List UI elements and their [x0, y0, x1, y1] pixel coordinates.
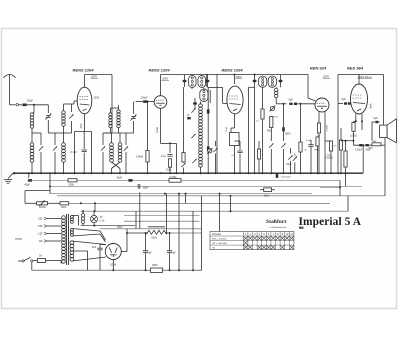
resistor R8	[299, 142, 302, 152]
wire	[191, 88, 193, 90]
capacitor C2 0.1uF cathode	[82, 149, 87, 151]
coil L9 oscillator	[199, 104, 203, 108]
wire lamp return	[81, 225, 135, 227]
wire	[82, 211, 84, 213]
wire	[205, 75, 207, 88]
table switch positions	[210, 232, 294, 250]
loudspeaker LS1	[380, 125, 388, 138]
wire antenna lead-in	[9, 78, 11, 105]
wire	[215, 141, 217, 146]
coil L2 antenna secondary	[30, 143, 34, 147]
transformer TR1 secondary 1	[70, 215, 73, 218]
wire cathode link	[75, 130, 92, 132]
capacitor C15 trimmer	[280, 75, 282, 88]
resistor R4 bias	[230, 133, 240, 146]
wire drop B+	[201, 196, 203, 270]
wire long HT	[337, 75, 339, 174]
wire V5 grid	[338, 103, 343, 105]
capacitor C22 5uF grid	[344, 102, 347, 104]
coil L8 lower	[118, 143, 122, 147]
svg-text:0.1µF: 0.1µF	[71, 151, 78, 154]
fuse F1	[38, 258, 46, 262]
IF transformer T1 coil b	[198, 76, 206, 88]
svg-text:100pF: 100pF	[141, 97, 149, 100]
bus line 4	[50, 193, 312, 195]
variable capacitor C3 tuning	[131, 116, 135, 118]
capacitor C8 1uF padding	[187, 117, 190, 119]
coil L1 antenna primary	[30, 113, 33, 116]
tap 110	[47, 240, 61, 242]
rectifier V6 RGN1064	[105, 244, 121, 260]
svg-text:20000: 20000	[39, 206, 46, 209]
svg-text:0.1MΩ: 0.1MΩ	[327, 124, 329, 131]
wire T1 top	[185, 74, 209, 76]
svg-text:0.1/0.5µF: 0.1/0.5µF	[281, 177, 291, 179]
wire 260V line	[100, 228, 202, 230]
svg-text:RENS 1264: RENS 1264	[72, 68, 94, 73]
coil L6 RF secondary	[117, 110, 120, 113]
bus line 2	[28, 179, 341, 181]
tap 125	[47, 233, 61, 235]
capacitor C31 trimmer	[193, 102, 197, 105]
svg-text:200V: 200V	[162, 77, 168, 81]
svg-text:5000: 5000	[61, 206, 67, 209]
svg-text:0.05MΩ: 0.05MΩ	[325, 158, 333, 160]
wire speaker feed	[383, 75, 385, 119]
switch S10	[269, 143, 273, 147]
svg-text:200V: 200V	[91, 75, 97, 79]
wire drop	[185, 194, 187, 204]
resistor R2 1M	[168, 159, 171, 167]
capacitor C12	[237, 150, 242, 152]
svg-text:150: 150	[38, 224, 43, 228]
svg-text:11mA: 11mA	[156, 127, 159, 133]
trimmer C16	[270, 106, 274, 110]
wire	[169, 167, 171, 173]
wire	[290, 148, 292, 154]
wire crossover	[112, 162, 121, 169]
wire HT winding	[72, 241, 106, 245]
capacitor C17 5000	[282, 127, 285, 131]
wire bus AVC	[28, 173, 30, 178]
svg-text:z. Wellenbereiche: z. Wellenbereiche	[269, 226, 287, 229]
wire	[234, 146, 236, 174]
wire	[102, 133, 104, 145]
wire	[262, 87, 264, 109]
svg-text:125V: 125V	[94, 97, 100, 100]
capacitor C28 4uF	[97, 247, 102, 249]
wire	[167, 232, 202, 234]
wire V2 cathode	[160, 108, 162, 143]
svg-text:RTW: RTW	[16, 237, 23, 241]
wire	[147, 162, 149, 173]
svg-text:200V: 200V	[236, 75, 242, 79]
svg-text:5000: 5000	[69, 184, 75, 187]
wire	[200, 102, 202, 105]
tube V1 RENS1264	[77, 87, 92, 114]
wire	[248, 87, 250, 173]
svg-text:0.1A: 0.1A	[100, 220, 105, 223]
svg-text:4500: 4500	[152, 264, 158, 267]
svg-text:40µF: 40µF	[117, 176, 123, 179]
coil L11 lamp winding	[81, 214, 84, 217]
wire riser	[339, 180, 341, 196]
wire	[239, 141, 241, 150]
dial lamp LP1	[90, 215, 97, 222]
svg-text:0.25µF: 0.25µF	[355, 150, 363, 152]
svg-text:LW = 700-2000: LW = 700-2000	[212, 243, 228, 245]
resistor R19 5000	[60, 202, 69, 205]
svg-text:20pF: 20pF	[27, 99, 33, 103]
bus ground main	[13, 172, 363, 174]
bus line 5	[57, 195, 385, 197]
wire V1 anode top cap	[84, 75, 86, 88]
IF transformer T1 coil a	[189, 76, 197, 88]
wire	[161, 142, 177, 144]
capacitor C30 8uF	[167, 250, 172, 252]
tap 220	[47, 218, 61, 220]
switch S3 waveband	[101, 146, 105, 150]
capacitor C27 under bus	[276, 174, 279, 178]
switch S9	[213, 148, 217, 152]
wire	[283, 104, 285, 127]
wire	[209, 90, 211, 103]
wire	[300, 104, 302, 142]
wire	[47, 105, 49, 113]
wire drop mid	[139, 192, 141, 228]
capacitor C10 padding	[207, 146, 210, 150]
wire	[63, 133, 65, 143]
svg-text:260V: 260V	[117, 226, 123, 229]
svg-text:Staßfurt: Staßfurt	[266, 219, 286, 225]
svg-text:110: 110	[38, 239, 43, 243]
switch S8 osc tap	[192, 159, 196, 163]
resistor R16 5000	[68, 179, 77, 182]
switch S12	[288, 155, 292, 159]
wire heater winding	[72, 229, 100, 232]
coil L4 grid coil	[62, 111, 65, 114]
svg-text:40µF: 40µF	[25, 184, 31, 187]
choke CH1 6162	[147, 230, 167, 234]
wire column	[216, 75, 218, 174]
ground symbol	[8, 173, 13, 178]
wire	[47, 120, 49, 133]
capacitor C19 0.1uF	[308, 144, 313, 146]
wire	[183, 87, 185, 153]
wire	[110, 108, 112, 113]
wire	[24, 191, 26, 204]
capacitor C21 500pF	[366, 144, 369, 146]
wire	[270, 128, 272, 141]
switch S15 waveband	[69, 114, 73, 118]
resistor R11	[339, 140, 342, 150]
variable capacitor C1 tuning	[46, 115, 50, 117]
wire grid of V2	[136, 101, 144, 103]
svg-text:50µF: 50µF	[366, 150, 372, 152]
wire	[63, 104, 65, 111]
svg-text:5µF: 5µF	[374, 117, 379, 120]
transformer TR1 secondary 3	[70, 241, 74, 245]
wire riser L5-heater	[230, 196, 232, 211]
svg-text:Imperial 5 A: Imperial 5 A	[299, 216, 362, 228]
svg-text:(MΩ): (MΩ)	[368, 148, 373, 150]
wire	[275, 87, 277, 88]
capacitor C4 100pF grid	[143, 100, 147, 103]
wire	[118, 105, 120, 110]
wire	[147, 102, 149, 150]
wire V3 cathode	[234, 114, 236, 128]
svg-text:5µF: 5µF	[342, 98, 347, 101]
capacitor C7 trimmer	[206, 75, 208, 88]
wire centre tap	[87, 251, 89, 270]
switch S6 osc tap	[191, 108, 195, 112]
resistor R15 7M	[372, 143, 381, 146]
switch S13 mains	[22, 260, 24, 262]
svg-text:MΩ: MΩ	[267, 130, 271, 133]
wire drop table	[219, 194, 221, 232]
wire screen column	[91, 131, 93, 173]
wire	[310, 140, 312, 145]
wire grid link	[64, 103, 72, 105]
switch S11	[281, 143, 285, 147]
svg-text:RES 964: RES 964	[347, 66, 364, 71]
wire drop	[166, 194, 168, 233]
svg-text:10µF: 10µF	[286, 163, 292, 166]
tube V4 REN904	[315, 98, 329, 112]
capacitor antenna series 20pF	[22, 104, 26, 107]
svg-text:5µF: 5µF	[289, 99, 294, 102]
trimmer C11	[208, 149, 212, 153]
wire	[31, 133, 33, 143]
coil L5 RF primary	[109, 113, 112, 116]
resistor R5	[261, 109, 264, 119]
wire osc column	[207, 87, 209, 173]
switch S5	[181, 163, 185, 167]
tap 150	[47, 225, 61, 227]
coil L7 lower	[110, 143, 114, 147]
svg-text:RENS 1204: RENS 1204	[148, 68, 170, 73]
wire	[94, 203, 96, 211]
IF transformer T2 coil a	[259, 76, 267, 87]
resistor R1 0.5M grid leak	[146, 151, 149, 163]
resistor R10 5000	[329, 141, 332, 151]
wire inset corner	[135, 211, 137, 229]
svg-text:4µF: 4µF	[92, 246, 97, 249]
resistor R3 anode feed	[182, 153, 185, 162]
capacitor C5 0.1uF	[167, 154, 172, 156]
resistor R21 diode load	[257, 149, 260, 159]
wire	[111, 133, 113, 143]
wire V1 cathode	[84, 114, 86, 132]
capacitor C26 60uF	[137, 184, 139, 189]
tube V5 RES964	[351, 84, 368, 114]
svg-text:5mA: 5mA	[370, 103, 373, 108]
wire 4V winding link	[72, 215, 79, 217]
bus line 6	[320, 186, 340, 188]
wire rect output	[112, 260, 114, 271]
wire	[40, 133, 42, 145]
resistor R14 bias	[352, 123, 355, 132]
resistor R6 1M	[270, 117, 273, 128]
bus line 8 heater	[81, 210, 348, 212]
svg-text:220: 220	[38, 217, 43, 221]
resistor R18 1M	[264, 188, 272, 192]
connector antenna jack	[16, 104, 18, 106]
svg-text:5000: 5000	[285, 133, 291, 136]
wire drop	[192, 211, 194, 270]
svg-text:0.5MΩ: 0.5MΩ	[170, 177, 177, 179]
switch S7 osc tap	[191, 134, 195, 138]
wire V4 plate down	[324, 112, 326, 174]
svg-text:REN 924: REN 924	[310, 66, 327, 71]
wire V4 cathode	[318, 112, 320, 124]
wire	[49, 173, 51, 193]
capacitor C18 5uF coupling	[289, 103, 292, 105]
wire tone line	[354, 144, 373, 146]
wire	[60, 261, 62, 264]
capacitor C13 trimmer	[254, 75, 256, 174]
wire grid of V1	[73, 101, 75, 104]
wire	[270, 149, 272, 173]
resistor R7 bias	[317, 123, 320, 133]
wire	[31, 128, 33, 133]
wire antenna node	[27, 104, 49, 106]
svg-text:200V 20mA: 200V 20mA	[358, 75, 372, 79]
wire	[102, 152, 104, 173]
IF transformer T1 coil c	[200, 89, 208, 102]
svg-text:125: 125	[38, 232, 43, 236]
wire	[383, 119, 385, 125]
wire V4 anode	[307, 75, 309, 99]
svg-text:3mA: 3mA	[80, 123, 83, 128]
wire	[340, 128, 342, 140]
mark	[299, 227, 304, 229]
wire	[71, 121, 73, 133]
wire supply bottom	[32, 269, 202, 271]
svg-text:200V: 200V	[323, 75, 329, 79]
wire T2 top	[235, 74, 281, 76]
coil L10 pigtail	[274, 88, 277, 91]
wire	[325, 140, 331, 142]
wire bus end riser	[362, 145, 364, 173]
resistor R13 0.05M	[344, 151, 347, 167]
capacitor C9 padding	[207, 109, 210, 113]
wire heater b	[124, 220, 200, 222]
wire	[318, 133, 320, 173]
IF transformer T2 coil b	[268, 76, 276, 87]
wire	[317, 146, 319, 173]
bus line 3	[50, 185, 362, 187]
coil L3 coupling	[62, 143, 66, 147]
wire grid feed V3	[207, 87, 222, 89]
wire	[345, 141, 347, 151]
resistor R20 4500	[151, 268, 163, 272]
svg-text:8µF: 8µF	[148, 252, 153, 255]
wire	[178, 194, 180, 271]
capacitor C6 trimmer	[184, 75, 186, 88]
wire right riser speaker	[384, 145, 386, 196]
svg-text:7MΩ: 7MΩ	[372, 141, 377, 143]
resistor R17 0.5M	[169, 179, 181, 183]
svg-text:1MΩ: 1MΩ	[264, 195, 269, 197]
svg-text:60µF: 60µF	[143, 186, 149, 189]
capacitor C25 40uF	[128, 179, 132, 182]
svg-text:MW = 200-600: MW = 200-600	[212, 238, 227, 240]
wire grid V4	[298, 103, 316, 105]
wire	[119, 133, 121, 143]
wire pot row	[25, 202, 37, 204]
capacitor C23 5uF output	[372, 121, 375, 123]
svg-text:0.1µ: 0.1µ	[161, 155, 166, 158]
wire rect to choke	[126, 229, 128, 233]
wire V5 anode top	[358, 75, 360, 85]
svg-text:2mA: 2mA	[225, 127, 228, 132]
svg-text:6162: 6162	[152, 237, 158, 240]
resistor R9 7M	[316, 137, 319, 146]
wire V3 anode top	[234, 75, 236, 85]
wire	[354, 120, 356, 122]
svg-text:Schalter: Schalter	[212, 233, 221, 236]
svg-text:1MΩ: 1MΩ	[166, 169, 171, 172]
wire	[350, 103, 352, 105]
wire V5 cathode pins	[355, 114, 357, 121]
svg-text:0.5MΩ: 0.5MΩ	[136, 156, 143, 159]
wire	[254, 75, 256, 80]
wire	[111, 75, 113, 134]
capacitor C20 0.25uF	[359, 144, 362, 146]
tube V2 RENS1204	[154, 96, 167, 109]
wire	[283, 149, 285, 173]
antenna	[4, 74, 16, 78]
junction dots bus	[63, 172, 65, 174]
switch S2 waveband	[53, 146, 57, 150]
wire heater a	[124, 214, 200, 216]
tube V3 RENS1264	[227, 86, 243, 114]
potentiometer P1 20000	[37, 202, 48, 205]
wire	[54, 152, 56, 173]
capacitor C29 8uF	[143, 250, 148, 252]
svg-text:RENS 1264: RENS 1264	[221, 68, 243, 73]
svg-text:2A: 2A	[39, 255, 42, 258]
wire V2 anode top	[160, 75, 162, 96]
transformer TR1 core	[66, 214, 68, 265]
transformer TR1 primary	[62, 216, 66, 220]
svg-text:8µF: 8µF	[172, 252, 177, 255]
transformer TR1 secondary 2	[70, 228, 73, 231]
switch S1 waveband	[39, 146, 43, 150]
svg-text:7MΩ: 7MΩ	[314, 150, 319, 152]
wire	[33, 105, 35, 113]
switch S14	[293, 157, 297, 161]
switch S4 waveband	[124, 146, 128, 150]
choke CH1 6162 core	[148, 226, 165, 228]
capacitor C24 40uF	[28, 179, 32, 182]
wire	[125, 133, 127, 145]
wire	[133, 102, 135, 114]
